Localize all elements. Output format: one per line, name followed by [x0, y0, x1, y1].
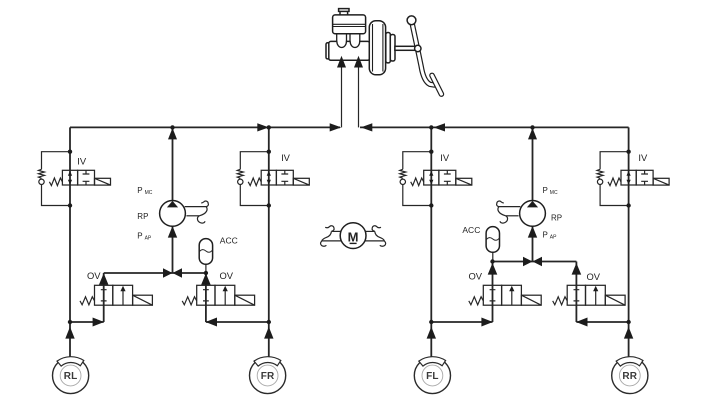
svg-text:ACC: ACC [462, 225, 480, 235]
svg-text:RR: RR [622, 371, 637, 382]
svg-text:P: P [137, 232, 142, 241]
svg-text:RP: RP [551, 214, 562, 223]
svg-text:OV: OV [220, 270, 234, 281]
svg-text:IV: IV [440, 152, 450, 163]
svg-text:P: P [543, 186, 548, 195]
svg-text:AP: AP [550, 235, 557, 241]
svg-text:MC: MC [145, 190, 153, 196]
svg-text:AP: AP [145, 236, 152, 242]
svg-text:FL: FL [426, 371, 439, 382]
svg-text:MC: MC [550, 190, 558, 196]
svg-text:ACC: ACC [220, 236, 238, 246]
svg-text:IV: IV [638, 152, 648, 163]
svg-text:M: M [348, 229, 359, 244]
svg-text:OV: OV [87, 270, 101, 281]
svg-text:OV: OV [469, 271, 483, 282]
svg-text:RP: RP [137, 212, 148, 221]
svg-text:OV: OV [587, 271, 601, 282]
svg-text:IV: IV [77, 156, 87, 167]
svg-text:IV: IV [281, 152, 291, 163]
svg-text:RL: RL [64, 371, 78, 382]
svg-text:P: P [137, 186, 142, 195]
svg-text:FR: FR [261, 371, 275, 382]
svg-text:P: P [543, 231, 548, 240]
